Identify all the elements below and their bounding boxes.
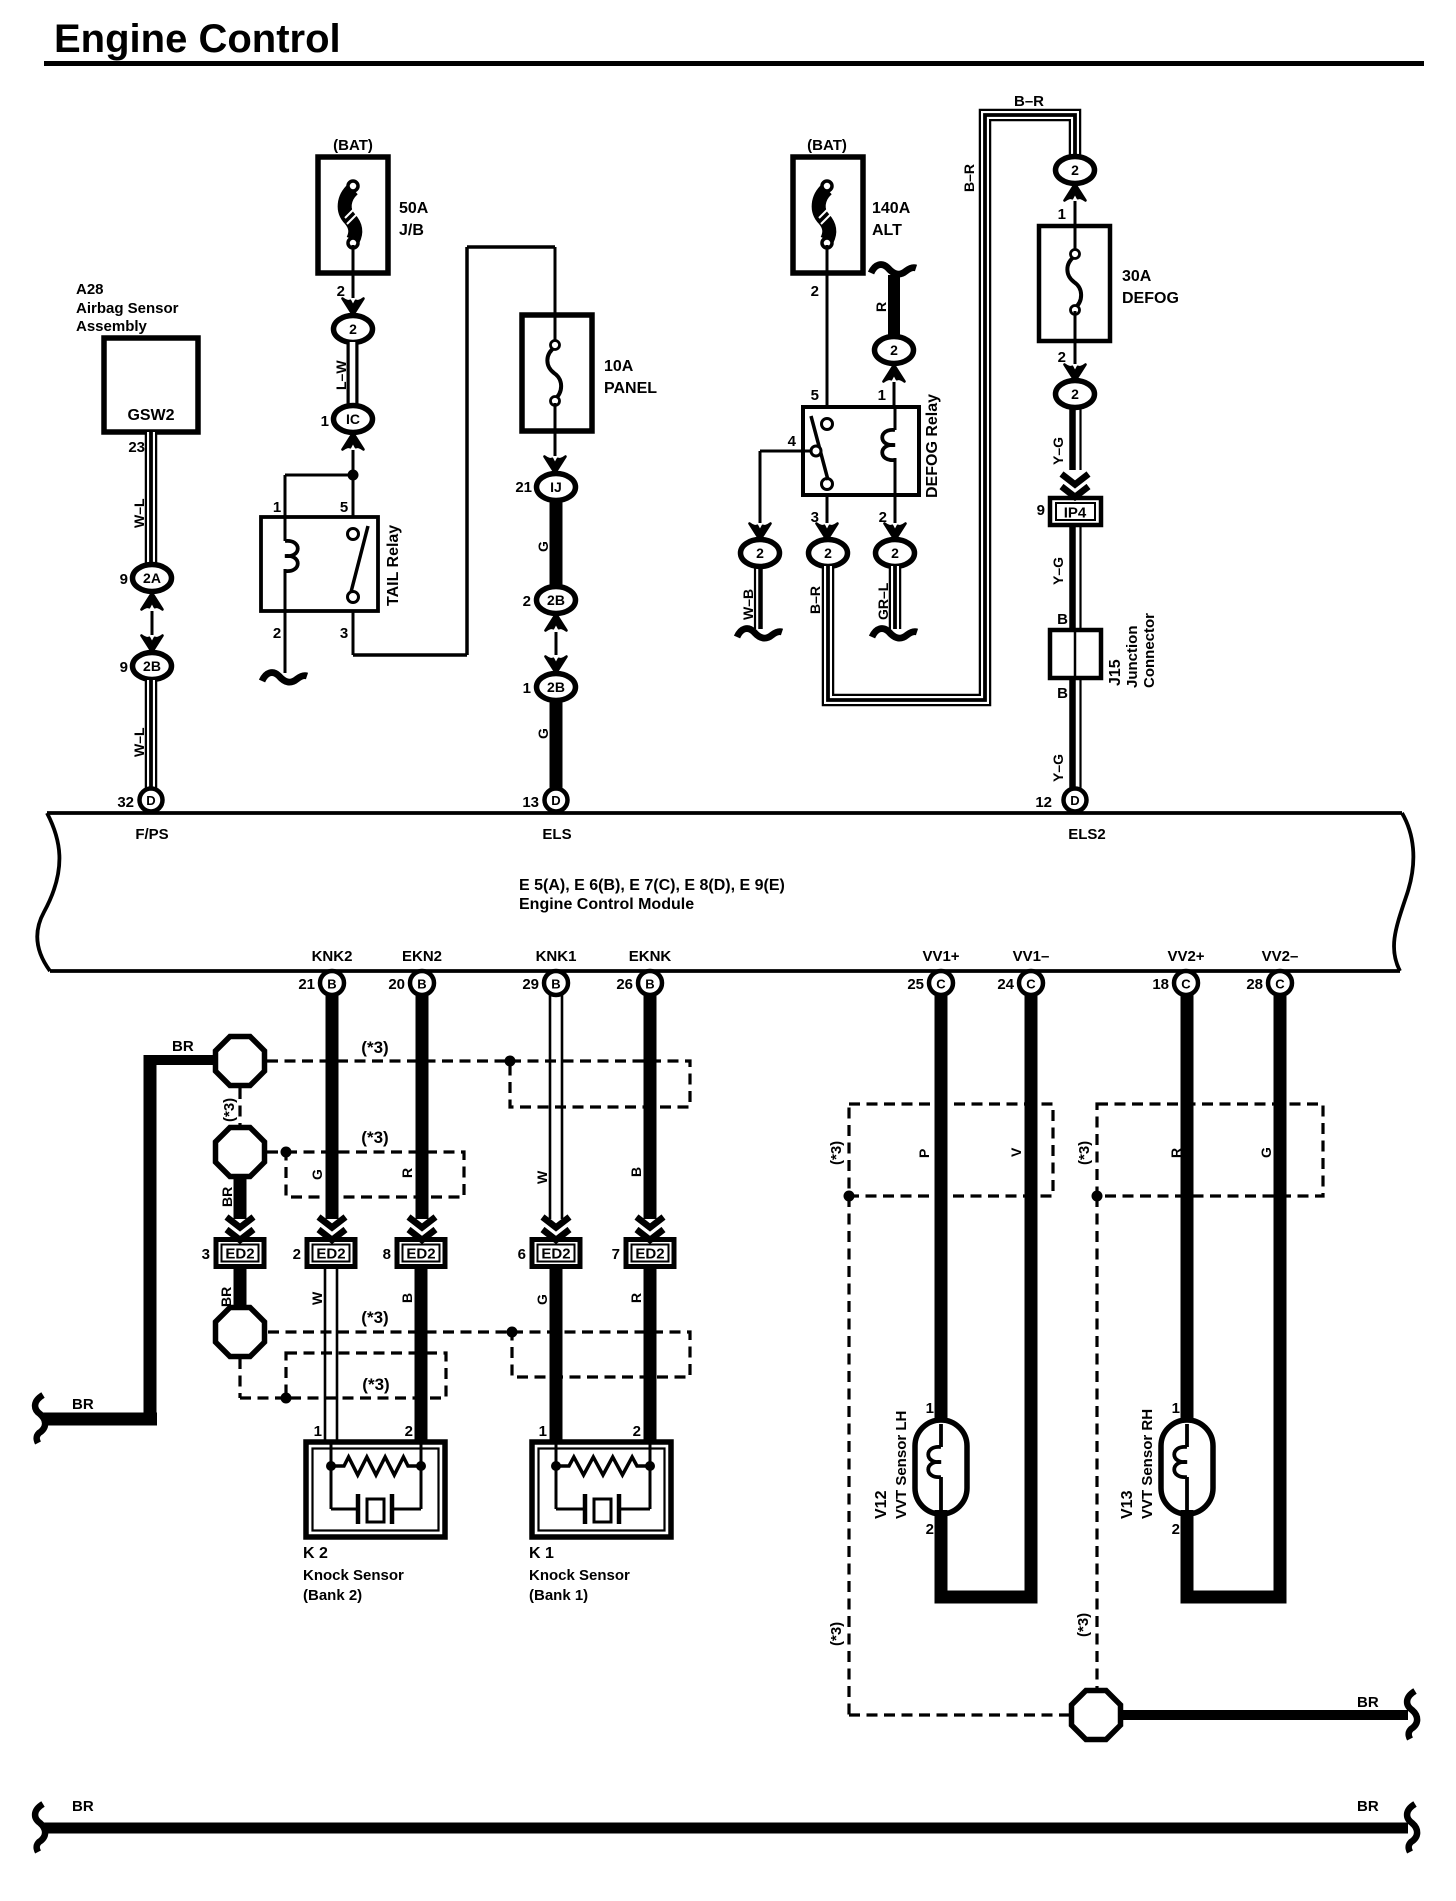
svg-text:BR: BR <box>1357 1798 1379 1815</box>
svg-text:J15: J15 <box>1107 659 1124 686</box>
svg-text:28: 28 <box>1246 976 1263 993</box>
svg-text:L–W: L–W <box>333 360 349 390</box>
svg-text:PANEL: PANEL <box>604 380 657 397</box>
svg-text:V: V <box>1008 1147 1024 1157</box>
svg-text:C: C <box>1181 977 1191 992</box>
svg-text:Connector: Connector <box>1141 613 1158 688</box>
svg-text:2: 2 <box>293 1246 301 1263</box>
svg-text:C: C <box>1275 977 1285 992</box>
svg-text:1: 1 <box>1058 206 1066 223</box>
svg-text:ELS: ELS <box>542 826 571 843</box>
svg-text:KNK2: KNK2 <box>312 948 353 965</box>
svg-text:W–L: W–L <box>131 498 147 528</box>
svg-text:2: 2 <box>1172 1521 1180 1538</box>
svg-text:GSW2: GSW2 <box>127 407 174 424</box>
svg-text:7: 7 <box>612 1246 620 1263</box>
svg-text:2: 2 <box>273 625 281 642</box>
svg-text:B–R: B–R <box>807 586 823 614</box>
svg-text:(*3): (*3) <box>361 1128 388 1147</box>
svg-text:1: 1 <box>314 1423 322 1440</box>
svg-text:2: 2 <box>811 283 819 300</box>
svg-text:4: 4 <box>788 433 797 450</box>
svg-text:B: B <box>1057 685 1068 702</box>
svg-text:5: 5 <box>340 499 348 516</box>
svg-text:GR–L: GR–L <box>875 582 891 620</box>
svg-text:BR: BR <box>218 1287 234 1307</box>
svg-text:BR: BR <box>72 1798 94 1815</box>
svg-text:K 2: K 2 <box>303 1545 328 1562</box>
svg-text:2: 2 <box>1071 386 1079 402</box>
svg-text:D: D <box>551 793 560 808</box>
svg-text:BR: BR <box>1357 1694 1379 1711</box>
svg-text:Y–G: Y–G <box>1050 437 1066 465</box>
svg-text:G: G <box>309 1169 325 1180</box>
svg-text:18: 18 <box>1152 976 1169 993</box>
svg-text:Airbag Sensor: Airbag Sensor <box>76 300 179 317</box>
svg-text:W–L: W–L <box>131 727 147 757</box>
svg-text:2: 2 <box>926 1521 934 1538</box>
svg-text:IC: IC <box>346 411 360 427</box>
svg-text:2: 2 <box>890 342 898 358</box>
svg-text:5: 5 <box>811 387 819 404</box>
svg-text:BR: BR <box>172 1038 194 1055</box>
svg-text:IJ: IJ <box>550 479 562 495</box>
svg-text:21: 21 <box>298 976 315 993</box>
svg-text:B: B <box>551 977 560 992</box>
svg-text:1: 1 <box>878 387 886 404</box>
svg-text:25: 25 <box>907 976 924 993</box>
svg-text:8: 8 <box>383 1246 391 1263</box>
svg-text:140A: 140A <box>872 200 911 217</box>
svg-text:TAIL Relay: TAIL Relay <box>385 525 402 606</box>
svg-text:VV1–: VV1– <box>1013 948 1050 965</box>
svg-text:(BAT): (BAT) <box>333 137 373 154</box>
svg-text:(*3): (*3) <box>1075 1613 1092 1637</box>
svg-text:ED2: ED2 <box>635 1246 664 1263</box>
svg-text:B: B <box>417 977 426 992</box>
svg-text:E 5(A), E 6(B), E 7(C), E 8(D): E 5(A), E 6(B), E 7(C), E 8(D), E 9(E) <box>519 877 785 894</box>
svg-text:VV2–: VV2– <box>1262 948 1299 965</box>
svg-text:2A: 2A <box>143 570 161 586</box>
svg-text:J/B: J/B <box>399 222 424 239</box>
svg-text:2: 2 <box>405 1423 413 1440</box>
svg-text:W: W <box>534 1170 550 1184</box>
svg-text:G: G <box>535 728 551 739</box>
svg-text:ED2: ED2 <box>541 1246 570 1263</box>
svg-text:ED2: ED2 <box>225 1246 254 1263</box>
svg-text:Knock Sensor: Knock Sensor <box>303 1567 404 1584</box>
svg-text:(*3): (*3) <box>1076 1141 1093 1165</box>
svg-text:Engine Control: Engine Control <box>54 17 341 61</box>
svg-text:G: G <box>534 1294 550 1305</box>
svg-text:P: P <box>916 1149 932 1158</box>
svg-text:(*3): (*3) <box>828 1622 845 1646</box>
svg-text:(Bank 2): (Bank 2) <box>303 1587 362 1604</box>
svg-text:2: 2 <box>523 593 531 610</box>
svg-text:C: C <box>936 977 946 992</box>
svg-text:Y–G: Y–G <box>1050 754 1066 782</box>
svg-text:R: R <box>399 1168 415 1178</box>
svg-text:ED2: ED2 <box>316 1246 345 1263</box>
svg-text:W–B: W–B <box>740 589 756 620</box>
svg-text:1: 1 <box>539 1423 547 1440</box>
svg-text:V12: V12 <box>873 1490 890 1519</box>
svg-text:2: 2 <box>756 545 764 561</box>
svg-text:ELS2: ELS2 <box>1068 826 1106 843</box>
svg-text:VV1+: VV1+ <box>922 948 959 965</box>
svg-text:G: G <box>1258 1147 1274 1158</box>
svg-text:Assembly: Assembly <box>76 318 148 335</box>
svg-text:DEFOG Relay: DEFOG Relay <box>924 394 941 498</box>
svg-text:2: 2 <box>891 545 899 561</box>
svg-text:Engine Control Module: Engine Control Module <box>519 896 694 913</box>
svg-text:IP4: IP4 <box>1064 505 1087 522</box>
svg-text:VVT Sensor LH: VVT Sensor LH <box>893 1411 910 1519</box>
svg-text:ALT: ALT <box>872 222 902 239</box>
svg-text:G: G <box>535 541 551 552</box>
svg-text:20: 20 <box>388 976 405 993</box>
svg-text:K 1: K 1 <box>529 1545 554 1562</box>
svg-text:29: 29 <box>522 976 539 993</box>
svg-text:(*3): (*3) <box>828 1141 845 1165</box>
svg-text:32: 32 <box>117 794 134 811</box>
svg-text:EKN2: EKN2 <box>402 948 442 965</box>
svg-text:9: 9 <box>1037 502 1045 519</box>
svg-text:2B: 2B <box>547 592 565 608</box>
svg-text:BR: BR <box>72 1396 94 1413</box>
svg-text:B: B <box>1057 611 1068 628</box>
svg-text:R: R <box>628 1293 644 1303</box>
svg-text:(*3): (*3) <box>361 1038 388 1057</box>
svg-text:VV2+: VV2+ <box>1167 948 1204 965</box>
svg-text:C: C <box>1026 977 1036 992</box>
svg-text:V13: V13 <box>1119 1490 1136 1519</box>
svg-text:2: 2 <box>337 283 345 300</box>
svg-text:Knock Sensor: Knock Sensor <box>529 1567 630 1584</box>
svg-text:KNK1: KNK1 <box>536 948 577 965</box>
svg-text:B–R: B–R <box>961 164 977 192</box>
svg-text:1: 1 <box>321 413 329 430</box>
svg-text:2: 2 <box>349 321 357 337</box>
svg-text:B: B <box>645 977 654 992</box>
svg-text:12: 12 <box>1035 794 1052 811</box>
svg-text:A28: A28 <box>76 281 104 298</box>
svg-text:1: 1 <box>926 1400 934 1417</box>
svg-text:2: 2 <box>633 1423 641 1440</box>
svg-text:R: R <box>1168 1148 1184 1158</box>
svg-text:(Bank 1): (Bank 1) <box>529 1587 588 1604</box>
svg-text:2: 2 <box>1071 162 1079 178</box>
svg-text:Junction: Junction <box>1124 626 1141 689</box>
svg-text:10A: 10A <box>604 358 634 375</box>
svg-text:(*3): (*3) <box>362 1375 389 1394</box>
svg-text:F/PS: F/PS <box>135 826 168 843</box>
svg-text:W: W <box>309 1291 325 1305</box>
svg-text:26: 26 <box>616 976 633 993</box>
svg-text:2B: 2B <box>143 658 161 674</box>
svg-text:2B: 2B <box>547 679 565 695</box>
svg-text:(*3): (*3) <box>361 1308 388 1327</box>
svg-text:3: 3 <box>202 1246 210 1263</box>
svg-text:B: B <box>628 1167 644 1177</box>
svg-text:(BAT): (BAT) <box>807 137 847 154</box>
svg-text:EKNK: EKNK <box>629 948 672 965</box>
svg-text:9: 9 <box>120 571 128 588</box>
svg-text:ED2: ED2 <box>406 1246 435 1263</box>
svg-text:9: 9 <box>120 659 128 676</box>
svg-text:1: 1 <box>1172 1400 1180 1417</box>
svg-text:D: D <box>1070 793 1079 808</box>
svg-text:VVT Sensor RH: VVT Sensor RH <box>1139 1409 1156 1519</box>
svg-text:50A: 50A <box>399 200 429 217</box>
svg-text:DEFOG: DEFOG <box>1122 290 1179 307</box>
svg-text:24: 24 <box>997 976 1014 993</box>
svg-text:23: 23 <box>128 439 145 456</box>
svg-text:B–R: B–R <box>1014 93 1044 110</box>
svg-text:2: 2 <box>824 545 832 561</box>
svg-text:BR: BR <box>219 1187 235 1207</box>
svg-text:B: B <box>327 977 336 992</box>
svg-text:(*3): (*3) <box>221 1098 238 1122</box>
svg-text:D: D <box>146 793 155 808</box>
svg-text:13: 13 <box>522 794 539 811</box>
svg-text:30A: 30A <box>1122 268 1152 285</box>
svg-text:R: R <box>873 302 889 312</box>
svg-text:1: 1 <box>523 680 531 697</box>
svg-text:B: B <box>399 1293 415 1303</box>
svg-text:3: 3 <box>340 625 348 642</box>
svg-text:Y–G: Y–G <box>1050 557 1066 585</box>
svg-text:6: 6 <box>518 1246 526 1263</box>
svg-text:1: 1 <box>273 499 281 516</box>
svg-text:21: 21 <box>515 479 532 496</box>
